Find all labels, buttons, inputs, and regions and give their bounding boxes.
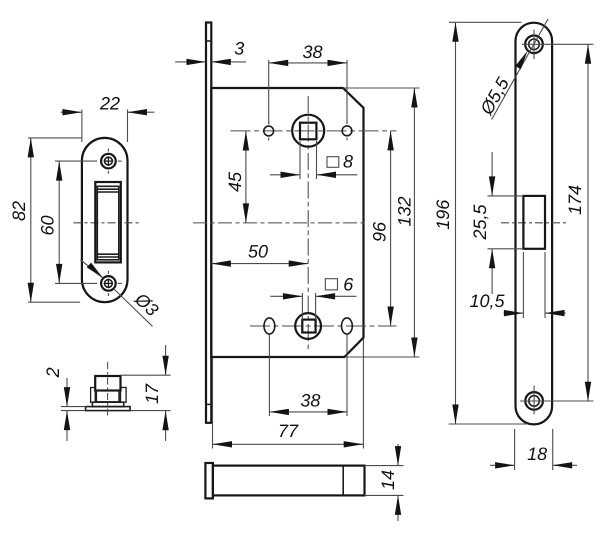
dim 22 left arrow bbox=[62, 109, 82, 115]
dim 8 lines bbox=[270, 174, 300, 176]
dim 196 extension lines bbox=[449, 21, 521, 23]
dim 96 line bbox=[390, 131, 392, 326]
dim 3 left arrow bbox=[187, 59, 207, 65]
dim 3 lines bbox=[175, 61, 206, 63]
svg-text:10,5: 10,5 bbox=[469, 291, 505, 311]
strike top screw hole bbox=[101, 154, 116, 169]
svg-text:6: 6 bbox=[343, 275, 354, 295]
dim 82 top arrow bbox=[28, 138, 34, 158]
dim 6 right arrow bbox=[316, 293, 336, 299]
dim 96 top arrow bbox=[387, 131, 393, 151]
dim38top right arrow bbox=[328, 60, 348, 66]
dim 50 line bbox=[211, 263, 308, 265]
svg-text:22: 22 bbox=[99, 94, 120, 114]
dim 25.5 top arrow bbox=[489, 176, 495, 196]
dim 25,5 extension lines bbox=[488, 195, 524, 197]
svg-text:196: 196 bbox=[433, 199, 453, 230]
dim 2 bottom arrow bbox=[64, 411, 70, 431]
faceplate strip round-end tangent ticks bbox=[206, 40, 211, 42]
bottom view body bbox=[213, 466, 365, 496]
svg-text:14: 14 bbox=[378, 470, 398, 490]
top screw vertical centerline bbox=[533, 30, 535, 60]
svg-text:Ø5,5: Ø5,5 bbox=[476, 73, 514, 119]
top screw horizontal centerline bbox=[522, 43, 546, 45]
bottom hub square hole 6mm bbox=[302, 320, 315, 333]
svg-text:60: 60 bbox=[38, 215, 58, 235]
hub vertical centerline bbox=[307, 96, 309, 350]
dim 45 top arrow bbox=[243, 131, 249, 151]
dim 25.5 bottom arrow bbox=[489, 249, 495, 268]
dim 45 bottom arrow bbox=[243, 203, 249, 223]
dim 82 line bbox=[30, 138, 32, 302]
svg-text:2: 2 bbox=[43, 367, 63, 378]
dim 77 line bbox=[213, 443, 364, 445]
dim 2 top arrow bbox=[64, 387, 70, 407]
dim 10.5 left arrow bbox=[504, 310, 524, 316]
dim 77 extension lines bbox=[212, 358, 214, 449]
dim 6 lines bbox=[270, 295, 302, 297]
svg-text:50: 50 bbox=[248, 242, 268, 262]
svg-text:77: 77 bbox=[278, 421, 299, 441]
svg-text:132: 132 bbox=[395, 196, 415, 226]
dim 60 top arrow bbox=[56, 161, 62, 181]
lock body outline bbox=[211, 88, 363, 357]
bottom view chamfer boundary line bbox=[342, 466, 344, 496]
faceplate bottom screw bbox=[525, 392, 543, 410]
bottom right oval hole bbox=[342, 318, 353, 334]
dim 18 lines bbox=[490, 464, 514, 466]
strike side strip bbox=[92, 402, 123, 406]
dim 14 bottom arrow bbox=[395, 495, 401, 515]
dim 38 bottom extension lines bbox=[268, 335, 270, 417]
dim 17 top arrow bbox=[162, 356, 168, 376]
dim 82 extension lines bbox=[28, 137, 82, 139]
dim 196 bottom arrow bbox=[452, 405, 458, 425]
svg-text:Ø3: Ø3 bbox=[130, 288, 162, 320]
faceplate outline (right view) bbox=[516, 23, 553, 425]
latch opening bottom band lines bbox=[97, 253, 119, 255]
leader diameter 3 bbox=[80, 260, 103, 279]
top left hole bbox=[264, 126, 274, 136]
dim 6 left arrow bbox=[283, 293, 303, 299]
svg-text:38: 38 bbox=[300, 391, 320, 411]
svg-text:82: 82 bbox=[9, 201, 29, 221]
svg-text:17: 17 bbox=[142, 383, 162, 404]
bottom holes centerline bbox=[250, 325, 397, 327]
bottom hub circle bbox=[295, 313, 321, 339]
top hub circle bbox=[292, 115, 324, 147]
leader diameter3 arrow bbox=[87, 263, 104, 279]
faceplate edge-on strip bbox=[206, 23, 211, 423]
dim 96 bottom arrow bbox=[387, 307, 393, 327]
svg-text:96: 96 bbox=[370, 221, 390, 242]
dim 77 left arrow bbox=[213, 441, 233, 447]
dim 8 right arrow bbox=[317, 172, 337, 178]
faceplate centerline bbox=[501, 222, 566, 224]
dim 50 right arrow bbox=[289, 260, 309, 266]
dim 2 extension lines bbox=[61, 406, 86, 408]
bottom left oval hole bbox=[264, 318, 275, 334]
strike latch opening outer rect bbox=[95, 182, 121, 262]
leader diameter 5.5 line bbox=[492, 19, 548, 120]
dim 25,5 lines bbox=[491, 152, 493, 196]
dim 77 right arrow bbox=[344, 441, 364, 447]
dim 18 extension lines bbox=[514, 429, 516, 470]
dim 8 left arrow bbox=[281, 172, 301, 178]
dim 8 square symbol bbox=[327, 157, 339, 168]
dim 60 bottom arrow bbox=[56, 264, 62, 284]
dim 82 bottom arrow bbox=[28, 283, 34, 303]
dim 18 left arrow bbox=[495, 462, 514, 468]
dim 22 lines bbox=[61, 111, 82, 113]
dim 17 extension lines bbox=[121, 374, 171, 376]
dim 174 bottom arrow bbox=[585, 382, 591, 402]
svg-text:25,5: 25,5 bbox=[470, 204, 490, 241]
dim 18 right arrow bbox=[553, 462, 573, 468]
dim 174 top arrow bbox=[585, 44, 591, 64]
strike latch opening inner rect bbox=[97, 186, 119, 259]
dim 174 extension lines bbox=[546, 43, 594, 45]
dim 10,5 lines bbox=[504, 312, 523, 314]
dim 8 extension lines bbox=[299, 141, 301, 179]
svg-text:45: 45 bbox=[225, 171, 245, 192]
dim 132 bottom arrow bbox=[411, 338, 417, 358]
dim 196 top arrow bbox=[452, 22, 458, 42]
dim 38 bottom line bbox=[269, 411, 347, 413]
top holes centerline bbox=[231, 130, 397, 132]
dim38bot right arrow bbox=[328, 409, 348, 415]
dim 132 line bbox=[413, 88, 415, 357]
dim 22 extension lines bbox=[81, 110, 83, 143]
strike side base plate bbox=[86, 407, 131, 411]
top hub square hole 8mm bbox=[300, 123, 316, 140]
strike side left flange bbox=[91, 388, 96, 403]
strike side right flange bbox=[121, 388, 127, 403]
dim38bot left arrow bbox=[269, 409, 289, 415]
dim38top left arrow bbox=[269, 60, 289, 66]
faceplate top screw bbox=[525, 36, 543, 54]
dim 14 extension lines bbox=[365, 465, 404, 467]
dim 22 right arrow bbox=[128, 109, 148, 115]
dim 38 top extension lines bbox=[268, 60, 270, 124]
latch opening top band lines bbox=[97, 188, 119, 190]
svg-text:174: 174 bbox=[565, 185, 585, 215]
strike plate outline (left view) bbox=[82, 138, 128, 302]
dim 174 line bbox=[587, 44, 589, 401]
bottom view faceplate strip bbox=[205, 463, 213, 498]
strike side lower box bbox=[96, 391, 119, 402]
bottom screw vertical centerline bbox=[533, 386, 535, 415]
dim 50 left arrow bbox=[211, 260, 231, 266]
svg-text:8: 8 bbox=[343, 152, 353, 172]
dim 38 top line bbox=[269, 62, 347, 64]
dim 6 extension lines bbox=[301, 293, 303, 320]
svg-text:3: 3 bbox=[234, 39, 244, 59]
faceplate latch hole rect bbox=[523, 196, 545, 249]
main horizontal centerline bbox=[193, 222, 368, 224]
strike side top box bbox=[95, 376, 120, 391]
dim 6 square symbol bbox=[325, 279, 337, 290]
top right hole bbox=[342, 126, 352, 136]
dim 17 line bbox=[165, 345, 167, 375]
dim 60 line bbox=[58, 161, 60, 283]
svg-text:38: 38 bbox=[302, 42, 322, 62]
dim 132 extension lines bbox=[343, 87, 420, 89]
dim 2 lines bbox=[66, 378, 68, 406]
dim 196 line bbox=[455, 22, 457, 424]
dim 60 extension lines bbox=[55, 160, 97, 162]
dim 3 right arrow bbox=[211, 59, 231, 65]
dim 10,5 extension lines bbox=[522, 252, 524, 318]
dim 10.5 right arrow bbox=[545, 310, 565, 316]
dim 14 lines bbox=[397, 444, 399, 465]
dim 132 top arrow bbox=[411, 88, 417, 108]
strike side centerline bbox=[107, 362, 109, 417]
dim 14 top arrow bbox=[395, 446, 401, 466]
dim 45 line bbox=[245, 131, 247, 223]
dim 17 bottom arrow bbox=[162, 411, 168, 431]
strike plate centerline bbox=[74, 222, 141, 224]
strike bottom screw hole bbox=[101, 276, 116, 291]
svg-text:18: 18 bbox=[527, 444, 547, 464]
leader diameter5.5 arrow bbox=[515, 51, 527, 69]
